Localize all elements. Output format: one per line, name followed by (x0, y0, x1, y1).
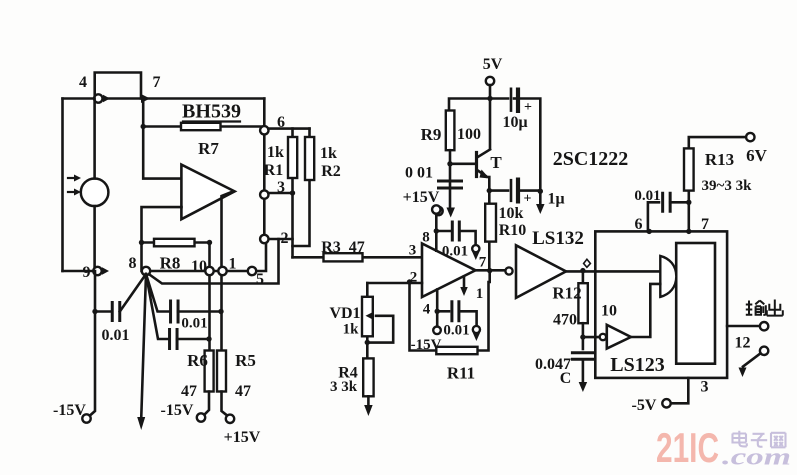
wire: vertical from R1 bottom to R3 rail (291, 193, 294, 257)
pin label 3 (LS123) (701, 379, 709, 396)
pin label 4 (U2) (423, 302, 431, 318)
wire: U2 pin8 supply (435, 206, 438, 251)
label -15V (U2) (411, 337, 442, 353)
label shuchu (output) glyphs (746, 300, 783, 316)
junction emitter/1u (487, 188, 492, 193)
svg-text:1μ: 1μ (547, 191, 564, 208)
resistor R12 (582, 271, 585, 284)
svg-text:39~3 3k: 39~3 3k (702, 178, 753, 194)
node pin 3 terminal (260, 190, 268, 198)
capacitor C-c 0.01 (lower mid) (170, 328, 178, 350)
svg-text:R1: R1 (264, 162, 284, 179)
pin label 8 (129, 255, 137, 272)
junction LS132 output (580, 268, 585, 273)
junction cap-c right (206, 336, 211, 341)
svg-text:10μ: 10μ (502, 114, 527, 131)
resistor R5 (217, 351, 226, 392)
wire: pin 9 lead (63, 270, 94, 273)
wire: pin row y=271 (142, 243, 267, 272)
IC LS123 outer block (595, 231, 727, 378)
label 5V (483, 56, 503, 73)
resistor R13 (689, 137, 746, 231)
label 0.01 (timing) (634, 188, 660, 204)
node pin 8 terminal (142, 267, 150, 275)
label 1u (547, 191, 564, 208)
svg-text:+: + (524, 100, 532, 115)
node pin 4 terminal (94, 94, 102, 102)
svg-text:9: 9 (83, 264, 91, 281)
label R4 (338, 365, 358, 382)
svg-text:LS123: LS123 (610, 354, 664, 376)
svg-text:7: 7 (479, 255, 487, 271)
node +15V terminal (mid section) (434, 207, 442, 215)
svg-text:7: 7 (701, 216, 709, 233)
svg-text:6: 6 (635, 216, 643, 233)
node -15V terminal (mid) (197, 413, 205, 421)
label 470 (553, 312, 577, 329)
label T (490, 153, 502, 172)
capacitor 0.01 (U2 pin 8) (436, 230, 451, 233)
wire: left -15V vertical (91, 271, 96, 415)
svg-text:R10: R10 (499, 222, 527, 239)
svg-text:47: 47 (181, 383, 197, 400)
watermark .com (722, 445, 791, 471)
wire: right vertical through pins 6,3,2 (263, 99, 266, 240)
capacitor C-a 0.01 (left) (95, 310, 112, 313)
svg-text:.com: .com (722, 445, 791, 471)
label -15V mid (161, 402, 194, 419)
junction pin4 (435, 309, 440, 314)
node pin 6 terminal (260, 126, 268, 134)
label 0.047 (535, 356, 571, 373)
resistor R3 (293, 256, 423, 259)
wire: 5V rail (449, 85, 508, 149)
junction pin 7 (filled arrow) (141, 94, 150, 103)
svg-text:12: 12 (735, 335, 751, 352)
tiny diamond mark above junction (584, 259, 591, 267)
label 6V (746, 146, 768, 165)
svg-text:R5: R5 (235, 351, 256, 370)
node -15V terminal (U2) (433, 327, 441, 335)
resistor R6 (205, 351, 214, 392)
wire: U2 feedback loop through R11 (410, 270, 506, 350)
pin label 6 (LS123) (635, 216, 643, 233)
label -5V (632, 397, 657, 414)
junction pin8/+15V cap (434, 228, 439, 233)
capacitor C 0.047 (571, 353, 595, 360)
label R13 (705, 150, 734, 169)
wire: op-amp U1 output vertical down through pin 1 to R5 (222, 191, 234, 350)
svg-text:10: 10 (601, 303, 617, 320)
light arrow 1 (68, 177, 74, 179)
polarity + (1u) (524, 192, 532, 207)
label C (560, 370, 572, 387)
watermark dianziwang glyphs (733, 431, 786, 448)
op-amp U1 (inside BH539) (181, 165, 234, 220)
junction R8 right (207, 240, 212, 245)
svg-text:3: 3 (701, 379, 709, 396)
pin 1 stub arrow (463, 277, 466, 288)
svg-text:R3 47: R3 47 (321, 239, 365, 256)
node output terminal (760, 322, 768, 330)
label R1 (264, 162, 284, 179)
label 39~3 3k (702, 178, 753, 194)
wire: inverting input from R8 node (142, 207, 182, 242)
node +15V terminal (U2 pin 8) (432, 205, 440, 213)
buffer gate (pin 10) (600, 334, 606, 340)
wire: fan from pin 8 (120, 274, 171, 339)
capacitor 0.01 (timing) (648, 202, 659, 231)
resistor R9 (446, 111, 455, 151)
wire: buffer output up into gate (631, 284, 660, 337)
junction cap-a left (92, 309, 97, 314)
label 0.01 (pin8 cap) (442, 244, 468, 260)
pin label 3 (277, 179, 285, 196)
svg-text:R12: R12 (552, 284, 581, 303)
pin label 7 (153, 74, 161, 91)
svg-text:8: 8 (422, 230, 430, 246)
pin label 5 (256, 271, 264, 288)
node pin 12 terminal (760, 347, 768, 355)
svg-text:0.01: 0.01 (102, 327, 130, 344)
svg-text:7: 7 (153, 74, 161, 91)
svg-text:2SC1222: 2SC1222 (553, 148, 629, 170)
label 1k (R2) (320, 145, 337, 162)
node -5V terminal (662, 399, 670, 407)
wire: pin12 diagonal to arrow (743, 353, 761, 366)
wire: long adjust arrow from pin 8 (141, 274, 146, 419)
svg-text:1k: 1k (320, 145, 337, 162)
wire: emitter down to R10 and 1u cap (488, 177, 491, 204)
svg-text:R2: R2 (321, 163, 341, 180)
potentiometer VD1 (366, 283, 369, 358)
node decoupling terminal + arrow (pin 7 area) (472, 245, 479, 252)
svg-text:2: 2 (281, 230, 289, 247)
svg-text:+15V: +15V (224, 429, 261, 446)
resistor R1 (291, 129, 294, 193)
junction R9/base (447, 161, 452, 166)
node pin 2 terminal (260, 235, 268, 243)
transistor Q1 emitter with arrow (477, 170, 487, 177)
svg-text:LS132: LS132 (532, 228, 584, 249)
svg-text:R6: R6 (187, 351, 208, 370)
label R12 (552, 284, 581, 303)
label VD1 (329, 305, 360, 322)
junction R1 bottom / pin3 (290, 190, 295, 195)
svg-text:4: 4 (423, 302, 431, 318)
resistor R2 (293, 129, 310, 246)
label R5 (235, 351, 256, 370)
label R6 (187, 351, 208, 370)
resistor R4 (363, 358, 373, 396)
light arrow 2 (68, 191, 74, 193)
svg-text:47: 47 (235, 383, 251, 400)
label LS123 (610, 354, 664, 376)
svg-text:3 3k: 3 3k (330, 379, 358, 395)
svg-text:5: 5 (256, 271, 264, 288)
junction VD1 bottom (365, 340, 370, 345)
wire: R9 bottom to base junction and bypass cap (449, 150, 452, 211)
wire: pin 3 to -5V (671, 378, 688, 403)
pin label 1 (229, 256, 237, 273)
label 0 01 (405, 165, 433, 182)
node -15V terminal (left) (82, 414, 90, 422)
wire: lower return path pin8 to pin2 branch (148, 239, 279, 284)
svg-text:10k: 10k (499, 205, 524, 222)
pin label 1 (U2) (476, 286, 484, 302)
pin label 10 (601, 303, 617, 320)
label 1k (VD1) (343, 322, 360, 338)
junction 5V (487, 96, 492, 101)
label 10u (502, 114, 527, 131)
junction R12 bottom (580, 334, 585, 339)
svg-text:0.01: 0.01 (181, 316, 207, 332)
wire: U2 pin 4 (436, 290, 439, 327)
junction 1u right (538, 189, 543, 194)
pin label 8 (U2) (422, 230, 430, 246)
svg-text:1: 1 (229, 256, 237, 273)
label 100 (457, 126, 481, 143)
svg-text:1k: 1k (343, 322, 360, 338)
node +15V terminal (226, 415, 234, 423)
underline of BH539 (183, 120, 240, 122)
wire: U2 pin 2 lead (367, 282, 422, 285)
label +15V mid (403, 189, 440, 206)
svg-text:470: 470 (553, 312, 577, 329)
transistor Q1 T base bar (475, 153, 478, 177)
pin label 2 (U2) (410, 270, 418, 286)
junction U2 output (487, 268, 492, 273)
svg-text:T: T (490, 153, 502, 172)
junction feedback/pin2 (407, 279, 412, 284)
wire: photodiode top lead (93, 99, 96, 179)
IC LS123 inner one-shot rectangle (676, 243, 715, 364)
svg-text:R13: R13 (705, 150, 734, 169)
wire: photodiode bottom lead (93, 206, 96, 271)
pin label 4 (79, 74, 87, 91)
transistor Q1 collector (477, 150, 490, 158)
label R10 (499, 222, 527, 239)
label R9 (421, 125, 442, 144)
label R11 (447, 364, 475, 383)
label R8 (160, 254, 181, 273)
wire: output to terminal (727, 325, 759, 328)
label 10k (499, 205, 524, 222)
junction cap-b right (218, 309, 223, 314)
resistor R7 (181, 123, 221, 130)
wire: vertical R8-right down through pin 10 to R6 (208, 243, 211, 351)
svg-text:100: 100 (457, 126, 481, 143)
wire: top loop rectangle between pins 4 and 7 (95, 73, 141, 99)
svg-text:0.01: 0.01 (442, 244, 468, 260)
wire: pin3 lead to R1 bottom (268, 192, 292, 195)
svg-text:21IC: 21IC (656, 424, 719, 471)
pin label 7 (U2) (479, 255, 487, 271)
svg-text:R9: R9 (421, 125, 442, 144)
resistor R10 (488, 204, 491, 271)
node 5V terminal (486, 77, 494, 85)
comparator LS132 (505, 267, 512, 274)
pin label 2 (281, 230, 289, 247)
svg-text:0.01: 0.01 (634, 188, 660, 204)
node 6V terminal (746, 133, 754, 141)
node pin 9 terminal (93, 267, 101, 275)
photodiode sensor circle (81, 179, 109, 207)
svg-text:+15V: +15V (403, 189, 440, 206)
svg-text:BH539: BH539 (182, 101, 241, 123)
wire: top rail y=98.5 from left corner to right vertical (63, 97, 265, 100)
svg-text:1k: 1k (267, 144, 284, 161)
capacitor 1u (510, 179, 513, 202)
capacitor 0.01 bypass (R9) (437, 181, 463, 188)
label +15V (224, 429, 261, 446)
wire: base lead (450, 163, 475, 166)
wire: pin 2 lead (268, 238, 292, 241)
label -15V left (53, 402, 86, 419)
svg-text:C: C (560, 370, 572, 387)
wire: R7 feedback rail y=126.5 (143, 125, 264, 128)
pin label 9 (83, 264, 91, 281)
svg-text:R8: R8 (160, 254, 181, 273)
wire: pin 7 vertical down to non-inverting input (143, 99, 181, 179)
junction R8 left (139, 240, 144, 245)
svg-text:3: 3 (409, 243, 417, 259)
svg-text:10: 10 (191, 258, 207, 275)
resistor R8 (142, 241, 210, 244)
label 2SC1222 (553, 148, 629, 170)
node pin 5 terminal (248, 267, 256, 275)
svg-text:5V: 5V (483, 56, 503, 73)
svg-text:R11: R11 (447, 364, 475, 383)
svg-text:1: 1 (476, 286, 484, 302)
svg-text:R7: R7 (198, 139, 219, 158)
gate D-shape (660, 256, 676, 297)
label R7 (198, 139, 219, 158)
capacitor 10u (514, 97, 518, 100)
label 0.01 (cap b) (181, 316, 207, 332)
pin label 12 (735, 335, 751, 352)
svg-text:6V: 6V (746, 146, 768, 165)
label 3.3k (330, 379, 358, 395)
label 0.01 (cap a) (102, 327, 130, 344)
junction pin7/R7 (141, 124, 146, 129)
VD1 wiper loop (367, 316, 393, 343)
svg-text:-5V: -5V (632, 397, 657, 414)
node pin 10 terminal (205, 267, 213, 275)
capacitor 0.01 (U2 pin 4) (437, 310, 449, 313)
junction R13/cap (686, 200, 691, 205)
svg-text:VD1: VD1 (329, 305, 360, 322)
pin label 3 (U2) (409, 243, 417, 259)
capacitor C-b 0.01 (upper mid) (171, 300, 179, 324)
wire: left vertical rail x=62.5 (61, 99, 64, 272)
wire: R12 node to LS123 buffer input (583, 336, 600, 339)
svg-text:+: + (524, 192, 532, 207)
wire: pin6 rail to R1 R2 tops (268, 127, 309, 130)
svg-text:4: 4 (79, 74, 87, 91)
svg-text:8: 8 (129, 255, 137, 272)
junction pin 6 on top edge (647, 229, 652, 234)
junction pin 7 on top edge (686, 229, 691, 234)
watermark 21IC (656, 424, 719, 471)
label R3 47 (321, 239, 365, 256)
svg-text:-15V: -15V (53, 402, 86, 419)
resistor R11 (436, 347, 477, 354)
svg-text:0.01: 0.01 (443, 323, 469, 339)
label R2 (321, 163, 341, 180)
IC label BH539 (182, 101, 241, 123)
label 1k (R1) (267, 144, 284, 161)
pin label 6 (277, 114, 285, 131)
label 0.01 (pin4 cap) (443, 323, 469, 339)
polarity + (10u) (524, 100, 532, 115)
svg-text:0 01: 0 01 (405, 165, 433, 182)
pin label 7 (LS123) (701, 216, 709, 233)
op-amp U2 (422, 244, 476, 298)
node pin 1 terminal (218, 267, 226, 275)
label 47 (R5) (235, 383, 251, 400)
label LS132 (532, 228, 584, 249)
label 47 (R6) (181, 383, 197, 400)
svg-text:-15V: -15V (161, 402, 194, 419)
pin label 10 (191, 258, 207, 275)
